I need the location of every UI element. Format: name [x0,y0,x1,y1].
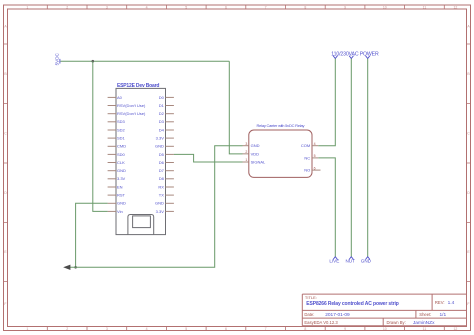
svg-text:11: 11 [423,327,427,331]
svg-text:Vin: Vin [117,209,123,214]
svg-text:10: 10 [383,5,387,9]
ESP12E U1 pin 23 D5 [159,152,174,157]
wire AC neutral vertical [350,59,352,257]
svg-text:GND: GND [117,168,126,173]
ESP12E U1 pin 21 3.3V [156,136,174,141]
svg-text:4: 4 [314,142,316,146]
svg-text:5: 5 [185,5,187,9]
svg-text:Sheet:: Sheet: [419,312,431,317]
junction GND bottom [74,266,77,269]
svg-text:F: F [4,302,6,306]
title block [302,294,466,326]
svg-text:1: 1 [26,327,28,331]
svg-text:COM: COM [301,143,310,148]
ESP12E U1 pin 4 SD3 [108,119,126,124]
svg-text:6: 6 [225,327,227,331]
svg-text:D6: D6 [159,160,165,165]
svg-text:2017-01-09: 2017-01-09 [325,312,350,318]
svg-text:NUT: NUT [345,259,355,264]
ESP12E U1 pin 26 D8 [159,176,174,181]
svg-text:D2: D2 [159,111,165,116]
svg-text:9: 9 [344,327,346,331]
svg-text:3.3V: 3.3V [117,176,126,181]
svg-text:2: 2 [66,327,68,331]
svg-text:8: 8 [304,327,306,331]
svg-text:EN: EN [117,184,123,189]
svg-text:1: 1 [245,158,247,162]
relay U2 pin 1 SIGNAL [243,158,267,164]
svg-text:Date:: Date: [304,312,314,317]
ESP12E U1 pin 27 RX [158,184,174,189]
svg-text:12: 12 [453,5,457,9]
ESP12E U1 pin 18 D2 [159,111,174,116]
wire relay NC down to LIVE out [318,158,335,257]
svg-text:3.3V: 3.3V [156,136,165,141]
svg-text:8: 8 [304,5,306,9]
ESP12E U1 pin 14 GND [108,201,126,206]
svg-text:CMD: CMD [117,144,126,149]
svg-text:1: 1 [26,5,28,9]
ESP12E U1 pin 6 SD1 [108,136,126,141]
net port anchors bottom [333,257,370,260]
ESP12E U1 pin 28 TX [159,193,174,198]
svg-text:3: 3 [106,5,108,9]
svg-text:1.4: 1.4 [448,300,455,306]
ESP12E U1 pin 9 CLK [108,160,126,165]
svg-text:3: 3 [106,327,108,331]
svg-text:GND: GND [117,201,126,206]
svg-text:ESP8266 Relay controled AC pow: ESP8266 Relay controled AC power strip [306,301,399,307]
wire relay COM up to AC live [318,59,335,146]
relay body [249,130,312,177]
svg-text:5VDC: 5VDC [55,52,60,65]
net port anchors top [333,56,370,59]
svg-text:SIGNAL: SIGNAL [251,159,266,164]
relay U2 pin 3 GND [243,142,260,148]
svg-text:5: 5 [185,327,187,331]
ESP12E U1 pin 11 3.3V [108,176,126,181]
ESP12E U1 pin 8 SD0 [108,152,126,157]
ESP12E U1 pin 17 D1 [159,103,174,108]
ESP12E U1 pin 15 Vin [108,209,123,214]
svg-text:GND: GND [155,144,164,149]
ESP12E U1 pin 20 D4 [159,127,174,132]
svg-text:D4: D4 [159,127,165,132]
ESP12E USB connector [128,215,154,235]
svg-text:REV:: REV: [435,300,445,305]
svg-text:RSV(Don't Use): RSV(Don't Use) [117,103,146,108]
svg-text:TX: TX [159,193,164,198]
svg-text:D0: D0 [159,95,165,100]
ESP12E U1 pin 13 RST [108,193,126,198]
svg-text:D3: D3 [159,119,165,124]
ESP12E U1 pin 16 D0 [159,95,174,100]
svg-text:110/230VAC POWER: 110/230VAC POWER [331,51,379,57]
svg-text:5: 5 [314,154,316,158]
wire GND bottom horizontal to relay GND [68,146,243,268]
svg-text:JaminNZx: JaminNZx [413,320,435,326]
svg-text:F: F [467,302,469,306]
ESP12E U1 pin 25 D7 [159,168,174,173]
svg-text:GND: GND [251,143,260,148]
ESP12E U1 pin 2 RSV(Don't Use) [108,103,146,108]
svg-text:SD3: SD3 [117,119,126,124]
ESP12E U1 pin 29 GND [155,201,174,206]
ESP12E U1 pin 22 GND [155,144,174,149]
svg-text:D8: D8 [159,176,165,181]
junction 5VDC/Vin branch [92,60,95,63]
svg-text:2: 2 [245,150,247,154]
ESP12E U1 pin 12 EN [108,184,123,189]
wire D5 to relay SIGNAL [174,154,243,162]
svg-text:10: 10 [383,327,387,331]
svg-text:1/1: 1/1 [440,312,447,318]
svg-text:RX: RX [158,184,164,189]
GND net arrow flag [63,265,70,270]
wire 5VDC horizontal [60,60,229,62]
relay U2 pin 6 NO [304,166,320,172]
ESP12E body [116,88,166,234]
svg-text:EasyEDA V0.12.3: EasyEDA V0.12.3 [304,320,338,325]
svg-text:12: 12 [453,327,457,331]
relay U2 pin 2 VDD [243,150,260,156]
svg-text:D5: D5 [159,152,165,157]
svg-text:RST: RST [117,193,126,198]
relay U2 pin 5 NC [304,154,318,160]
ESP12E U1 pin 7 CMD [108,144,127,149]
svg-text:SD1: SD1 [117,136,126,141]
ESP12E U1 pin 1 A0 [108,95,123,100]
svg-text:D1: D1 [159,103,165,108]
wire 5VDC branch to Vin [93,61,108,211]
svg-text:D7: D7 [159,168,165,173]
wire AC ground vertical [367,59,369,257]
svg-text:LIVE: LIVE [329,259,339,264]
wire GND: devboard GND pin left/down [76,203,108,267]
svg-text:NO: NO [304,168,310,173]
svg-text:Relay Carrier with 5vDC Relay: Relay Carrier with 5vDC Relay [257,123,305,128]
frame row ticks [4,44,471,282]
svg-text:SD0: SD0 [117,152,126,157]
svg-text:6: 6 [225,5,227,9]
svg-text:3.3V: 3.3V [156,209,165,214]
svg-text:A0: A0 [117,95,123,100]
ESP12E U1 pin 24 D6 [159,160,174,165]
ESP12E U1 pin 5 SD2 [108,127,126,132]
ESP12E U1 pin 3 RSV(Don't Use) [108,111,146,116]
svg-text:9: 9 [344,5,346,9]
ESP12E U1 pin 10 GND [108,168,126,173]
svg-text:CLK: CLK [117,160,125,165]
svg-text:11: 11 [423,5,427,9]
svg-text:RSV(Don't Use): RSV(Don't Use) [117,111,146,116]
svg-text:VDD: VDD [251,151,260,156]
svg-text:4: 4 [146,5,148,9]
svg-text:7: 7 [265,5,267,9]
svg-text:7: 7 [265,327,267,331]
wire 5VDC vertical to relay VDD [229,61,242,154]
svg-text:TITLE:: TITLE: [305,295,317,300]
svg-text:6: 6 [314,166,316,170]
svg-text:Drawn By:: Drawn By: [387,320,406,325]
relay U2 pin 4 COM [301,142,318,148]
ESP12E U1 pin 30 3.3V [156,209,174,214]
svg-text:2: 2 [66,5,68,9]
svg-text:GND: GND [361,259,372,264]
svg-text:3: 3 [245,142,247,146]
svg-text:SD2: SD2 [117,127,126,132]
ESP12E U1 pin 19 D3 [159,119,174,124]
svg-text:NC: NC [304,155,310,160]
svg-text:GND: GND [155,201,164,206]
svg-text:4: 4 [146,327,148,331]
